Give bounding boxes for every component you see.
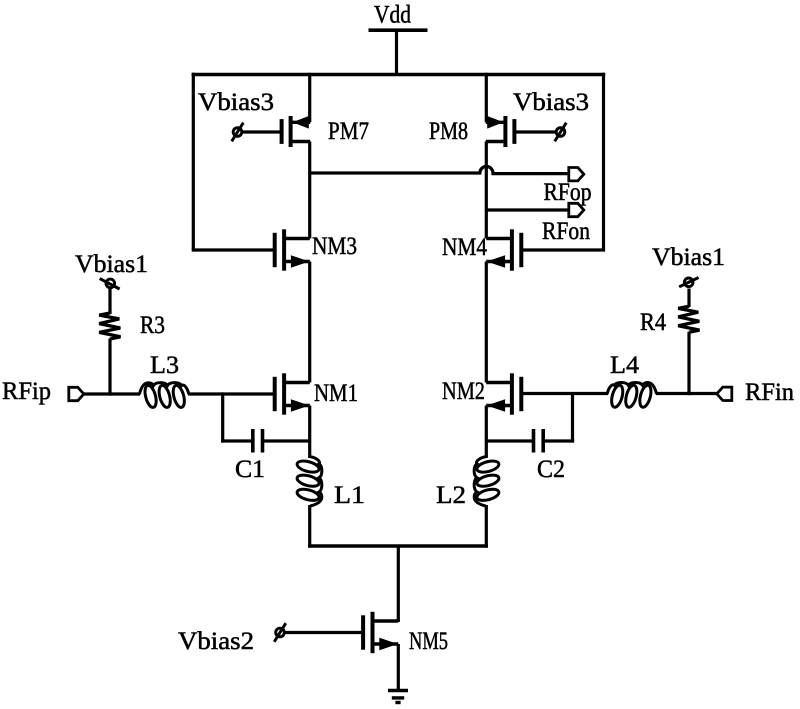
svg-text:Vbias3: Vbias3 (198, 89, 274, 116)
label NM3 (312, 233, 357, 260)
wire L1 to tail rail (308, 505, 311, 548)
wire C1 left lead (221, 439, 251, 442)
wire Vbias1 left to R3 (108, 289, 111, 314)
transistor NM5 (363, 612, 398, 653)
svg-text:Vbias3: Vbias3 (513, 89, 589, 116)
capacitor C2 (534, 429, 544, 453)
label Vbias3 left (198, 89, 274, 116)
resistor R3 (99, 313, 120, 339)
wire NM1 source to L1 (308, 406, 311, 459)
label NM5 (409, 628, 448, 655)
svg-text:NM3: NM3 (312, 233, 357, 260)
svg-text:NM1: NM1 (314, 380, 358, 407)
resistor R4 (678, 306, 699, 332)
svg-text:R3: R3 (140, 312, 165, 339)
transistor PM8 (486, 116, 515, 147)
label L1 (334, 482, 365, 509)
svg-text:R4: R4 (640, 309, 666, 336)
wire L4 to NM2 gate (522, 392, 609, 395)
ground (388, 691, 408, 703)
label R4 (640, 309, 666, 336)
wire NM4 gate (523, 248, 606, 251)
label Vbias2 (178, 628, 254, 655)
wire RFin to L4 (656, 392, 717, 395)
wire RFip to L3 (84, 392, 141, 395)
wire PM8 gate to Vbias3 right (515, 130, 556, 133)
wire NM3 gate (192, 248, 275, 251)
label Vbias1 right (652, 244, 725, 271)
label RFop (544, 179, 592, 206)
svg-text:Vdd: Vdd (374, 2, 411, 29)
wire tail stem (397, 546, 400, 622)
port RFop (569, 168, 584, 181)
wire NM4 source to NM2 drain (485, 262, 488, 383)
wire R4 to input line (687, 332, 690, 395)
wire NM3 source to NM1 drain (308, 262, 311, 383)
svg-text:L3: L3 (150, 352, 179, 379)
wire C1 right lead (264, 439, 311, 442)
svg-text:NM4: NM4 (442, 234, 487, 261)
transistor PM7 (282, 116, 311, 147)
wire left column rail to PM7 source (308, 73, 311, 123)
wire right column rail to PM8 source (485, 73, 488, 123)
svg-text:C2: C2 (537, 456, 565, 483)
label RFon (542, 218, 590, 245)
bias terminal Vbias1 right (679, 278, 698, 287)
svg-text:Vbias1: Vbias1 (75, 251, 148, 278)
label PM8 (429, 118, 468, 145)
label R3 (140, 312, 165, 339)
wire Vbias2 to NM5 gate (285, 631, 364, 634)
wire RFon (486, 208, 569, 211)
transistor NM3 (275, 229, 310, 270)
capacitor C1 (253, 429, 263, 453)
wire NM5 source to ground (397, 644, 400, 691)
wire PM7 drain to NM3 drain (308, 142, 311, 239)
transistor NM4 (486, 229, 521, 270)
wire L3 to NM1 gate (188, 392, 275, 395)
wire C1 tap (221, 392, 224, 442)
label PM7 (328, 118, 369, 145)
bias terminal Vbias3 right (555, 123, 567, 142)
svg-text:PM8: PM8 (429, 118, 468, 145)
inductor L2 (474, 457, 500, 506)
label L3 (150, 352, 179, 379)
label C1 (235, 456, 265, 483)
label NM1 (314, 380, 358, 407)
label NM4 (442, 234, 487, 261)
wire Vbias1 right to R4 (687, 289, 690, 308)
wire Vdd stem (395, 30, 398, 76)
inductor L4 (607, 382, 656, 408)
inductor L1 (296, 457, 322, 506)
Vdd supply bar (369, 28, 428, 32)
svg-text:Vbias2: Vbias2 (178, 628, 254, 655)
label L4 (610, 352, 640, 379)
transistor NM1 (275, 373, 310, 414)
label C2 (537, 456, 565, 483)
bias terminal Vbias1 left (100, 279, 120, 289)
svg-text:RFin: RFin (745, 379, 794, 406)
label RFin (745, 379, 794, 406)
svg-text:NM5: NM5 (409, 628, 448, 655)
label RFip (2, 378, 51, 405)
wire right frame edge (602, 73, 605, 250)
label Vbias3 right (513, 89, 589, 116)
svg-text:RFon: RFon (542, 218, 590, 245)
svg-text:L4: L4 (610, 352, 640, 379)
wire NM2 source to L2 (485, 406, 488, 459)
svg-text:C1: C1 (235, 456, 265, 483)
wire Vbias3 left to PM7 gate (243, 130, 282, 133)
wire RFop with hop over right column (310, 166, 569, 173)
bias terminal Vbias2 (274, 623, 286, 642)
bias terminal Vbias3 left (232, 123, 244, 142)
svg-text:L1: L1 (334, 482, 365, 509)
wire top rail (192, 73, 606, 76)
wire R3 to input line (108, 339, 111, 396)
label Vbias1 left (75, 251, 148, 278)
Vdd label (374, 2, 411, 29)
wire left frame edge (192, 73, 195, 250)
svg-text:NM2: NM2 (442, 378, 485, 405)
label NM2 (442, 378, 485, 405)
port RFip (69, 387, 84, 400)
wire PM8 drain to NM4 drain (485, 142, 488, 239)
wire C2 left lead (485, 439, 532, 442)
wire tail rail (308, 544, 488, 547)
wire C2 tap (571, 392, 574, 443)
inductor L3 (139, 383, 188, 409)
svg-text:L2: L2 (436, 482, 466, 509)
wire L2 to tail rail (485, 505, 488, 548)
svg-text:RFip: RFip (2, 378, 51, 405)
port RFin (717, 387, 732, 400)
svg-text:PM7: PM7 (328, 118, 369, 145)
svg-text:Vbias1: Vbias1 (652, 244, 725, 271)
wire C2 right lead (545, 439, 575, 442)
transistor NM2 (486, 373, 521, 414)
label L2 (436, 482, 466, 509)
port RFon (569, 203, 584, 216)
